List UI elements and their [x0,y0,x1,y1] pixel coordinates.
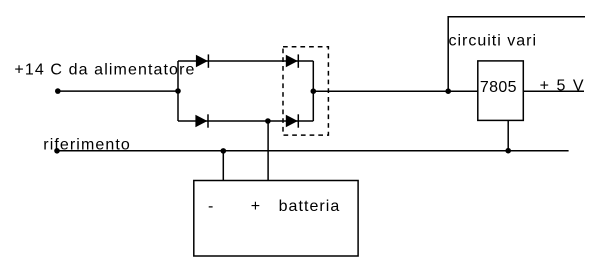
svg-text:+ 5 V: + 5 V [540,78,584,95]
junction output node [311,88,317,94]
junction riferimento regulator ground [505,148,511,154]
wire input horizontal [58,90,178,92]
wire battery minus pin [222,151,224,181]
node riferimento terminal [54,148,60,154]
wire right connector vertical [312,61,314,121]
dashed box bridge module [283,47,328,135]
node input terminal [55,88,61,94]
diode D2 bottom-left [195,114,208,127]
wire output to regulator [313,90,478,92]
svg-text:+14 C da alimentatore: +14 C da alimentatore [14,62,194,79]
wire top row [178,60,313,62]
svg-text:-: - [208,198,213,215]
wire regulator output [523,90,584,92]
diode D3 top-right [286,54,299,67]
diode D4 bottom-right [286,114,299,127]
wire regulator ground pin [507,120,509,150]
svg-text:batteria: batteria [279,198,340,215]
wire riferimento rail [57,150,569,152]
svg-text:circuiti vari: circuiti vari [449,32,537,49]
diode D1 top-left [196,54,209,67]
wire battery plus pin [267,121,269,181]
wire splitter vertical [177,61,179,121]
wire bottom row [178,120,313,122]
wire circuiti vari feed [448,17,585,91]
junction circuiti vari tap [445,88,451,94]
junction battery plus tap [265,118,271,124]
junction input splitter [175,88,181,94]
svg-text:+: + [251,198,260,215]
regulator U1 7805 box [478,61,524,121]
svg-text:7805: 7805 [480,79,517,96]
junction riferimento battery tap [221,148,227,154]
battery B1 box [194,181,358,257]
